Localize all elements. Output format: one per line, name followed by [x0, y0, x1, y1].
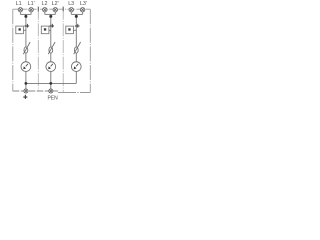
- bus junction dot branch 1: [25, 82, 28, 85]
- earth cross mark: [23, 95, 27, 99]
- branch 1 junction dot: [24, 15, 27, 18]
- device outline dashed border: [13, 9, 91, 92]
- bus junction dot branch 2: [49, 82, 52, 85]
- PEN conductor line: [13, 90, 58, 92]
- branch 3 disconnector: [74, 42, 81, 54]
- branch 1 indicator connector: [23, 29, 26, 31]
- branch 1 disconnect cross: [24, 24, 29, 28]
- branch 3 wires: [71, 12, 82, 84]
- branch 3 indicator box: [66, 26, 74, 34]
- branch 2 junction dot: [49, 15, 52, 18]
- svg-text:L2: L2: [42, 1, 48, 7]
- branch 2 indicator connector: [49, 29, 51, 31]
- terminal L3': [80, 8, 84, 12]
- divider 2 top tick: [62, 7, 64, 12]
- svg-text:L2': L2': [52, 1, 59, 7]
- branch 1 disconnector: [23, 42, 30, 54]
- terminal PEN left: [24, 89, 28, 93]
- PEN bus wire: [26, 82, 76, 84]
- branch 2 spark gap: [46, 62, 56, 72]
- branch 3 junction dot: [75, 15, 78, 18]
- cell divider 1: [37, 7, 39, 91]
- svg-text:L1: L1: [16, 1, 22, 7]
- branch 2 wires: [45, 12, 56, 91]
- terminal L1: [18, 8, 22, 12]
- branch 2 indicator box: [41, 26, 49, 34]
- branch 1 wires: [20, 12, 31, 91]
- terminal L2': [53, 8, 57, 12]
- branch 3 indicator connector: [73, 29, 76, 31]
- terminal L3: [69, 8, 73, 12]
- branch 1 indicator box: [16, 26, 24, 34]
- terminal L1': [29, 8, 33, 12]
- svg-text:PEN: PEN: [47, 95, 58, 101]
- divider 1 top tick: [37, 7, 39, 12]
- branch 2 disconnect cross: [49, 24, 54, 28]
- branch 3 disconnect cross: [75, 24, 80, 28]
- terminal PEN right: [49, 89, 53, 93]
- svg-text:L3': L3': [80, 1, 87, 7]
- terminal L2: [43, 8, 47, 12]
- svg-text:L1': L1': [28, 1, 35, 7]
- branch 3 spark gap: [71, 62, 81, 72]
- cell divider 2: [62, 7, 64, 93]
- branch 2 disconnector: [48, 42, 55, 54]
- branch 1 spark gap: [21, 62, 31, 72]
- svg-text:L3: L3: [68, 1, 74, 7]
